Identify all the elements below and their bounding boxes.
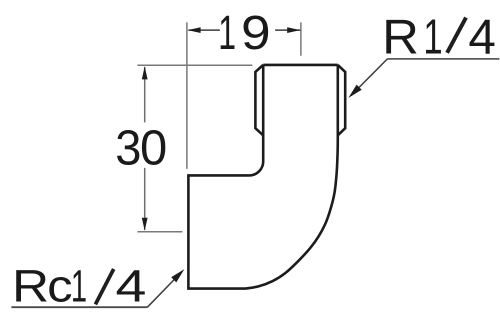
dimension 19: right arrowhead (287, 27, 300, 33)
svg-text:4: 4 (116, 260, 147, 311)
svg-text:1: 1 (218, 5, 236, 59)
svg-text:1: 1 (423, 10, 442, 66)
dimension 19: dimension line right segment (275, 29, 300, 31)
dimension 19: left arrowhead (188, 27, 201, 33)
dimension 30: dimension line lower segment (144, 168, 146, 230)
dimension 19: value label (218, 5, 270, 59)
svg-text:4: 4 (468, 10, 496, 65)
svg-text:R: R (382, 9, 419, 64)
dimension 19: dimension line left segment (188, 29, 220, 31)
leader R1/4: horizontal shelf line (387, 58, 499, 60)
threaded end outline (male R1/4 thread, top) (255, 65, 345, 135)
dimension 30: bottom arrowhead (142, 218, 148, 231)
dimension 30: top extension line (137, 64, 252, 66)
dimension 30: bottom extension line (137, 231, 182, 233)
dimension 19: left extension line (186, 22, 188, 169)
svg-text:9: 9 (241, 5, 271, 59)
leader R1/4: thread label (382, 9, 496, 65)
svg-text:1: 1 (71, 261, 87, 312)
leader R1/4: arrowhead (348, 85, 361, 98)
dimension 30: top arrowhead (142, 66, 148, 79)
svg-text:0: 0 (140, 121, 167, 175)
leader Rc1/4: diagonal line (147, 272, 182, 308)
dimension 30: value label (115, 121, 167, 175)
svg-text:3: 3 (115, 122, 141, 176)
svg-text:c: c (47, 261, 72, 312)
leader Rc1/4: thread label (12, 260, 146, 312)
dimension 30: dimension line upper segment (144, 67, 146, 123)
svg-text:R: R (12, 261, 49, 312)
leader Rc1/4: horizontal shelf line (11, 306, 147, 308)
dimension 19: right extension line (300, 22, 302, 55)
leader R1/4: diagonal line (351, 59, 388, 96)
elbow body outline (188, 65, 337, 289)
leader Rc1/4: arrowhead (171, 269, 184, 282)
